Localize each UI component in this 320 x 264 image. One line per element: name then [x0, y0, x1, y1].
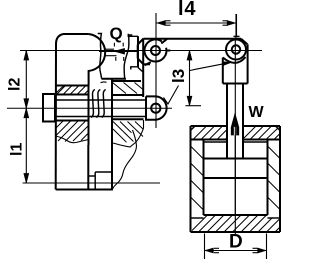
vertical centerline left pivot / eye [155, 13, 157, 128]
bore walls [203, 140, 205, 216]
body hole lines [88, 95, 90, 146]
centerline pivot axis [20, 50, 262, 52]
plunger (broken-out piece) [98, 34, 133, 83]
nut block upper [112, 67, 144, 97]
svg-text:l3: l3 [169, 69, 188, 83]
screw shaft [56, 99, 146, 101]
body lower hatched band [56, 121, 89, 143]
dimension l3 [164, 51, 232, 106]
support post [128, 34, 143, 72]
clevis on rod [223, 44, 248, 83]
extension line l1 bottom [23, 182, 160, 184]
eye rod-end [146, 96, 167, 119]
rod centerline inside [234, 135, 236, 215]
dimension l1 [9, 108, 29, 183]
svg-text:l4: l4 [178, 0, 196, 20]
dimension D [205, 232, 267, 260]
cylinder outline [191, 125, 228, 127]
pneumatic cylinder [191, 126, 281, 232]
top link bar l4 [138, 39, 248, 65]
svg-text:l1: l1 [9, 143, 26, 156]
force arrow W [231, 114, 239, 136]
dimension l2 [7, 51, 29, 109]
svg-text:l2: l2 [7, 78, 24, 91]
top flange hatch [193, 126, 280, 140]
left boss pivot [144, 39, 170, 65]
left wall hatch [191, 146, 204, 210]
force arrow Q [99, 43, 138, 61]
bore bottom [204, 214, 268, 216]
body foot / legs [56, 79, 113, 190]
piston rod inside (redraw over piston) [226, 142, 228, 159]
centerline screw axis [7, 107, 172, 109]
svg-text:D: D [229, 232, 243, 253]
screw threads [91, 90, 106, 118]
break line body right [112, 130, 136, 190]
rod centerline [235, 14, 237, 40]
bottom band hatch [192, 216, 280, 232]
right wall hatch [268, 146, 281, 210]
body housing outline [56, 34, 105, 190]
svg-text:Q: Q [110, 24, 123, 43]
nut block lower [112, 119, 144, 147]
piston [204, 159, 268, 179]
screw head [43, 94, 55, 122]
svg-text:W: W [249, 104, 265, 121]
right boss pivot [226, 40, 246, 60]
dimension l4 [156, 0, 240, 36]
piston rod [227, 84, 243, 159]
body upper hatched band [56, 86, 89, 95]
flange bottom [191, 139, 228, 141]
